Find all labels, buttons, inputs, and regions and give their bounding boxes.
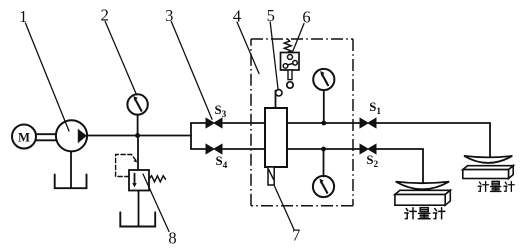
wire relief valve to tank (138, 191, 140, 227)
wire main line (87, 135, 191, 137)
valve S2 (360, 144, 376, 154)
leader 6 (292, 24, 304, 53)
pump output triangle (78, 129, 87, 143)
block top stem (275, 91, 277, 109)
label right 计量计 (478, 181, 514, 191)
meter dish right (464, 156, 512, 163)
pressure gauge lower (313, 176, 334, 197)
meter slab left (395, 190, 450, 194)
relief valve pilot dashed line (116, 155, 136, 177)
motor M circle (12, 125, 36, 149)
leader 3 (171, 22, 212, 120)
svg-text:S1: S1 (369, 100, 381, 117)
leader 7 (274, 185, 294, 230)
relief valve arrow (134, 174, 136, 185)
leader 8 (143, 174, 169, 232)
leader 2 (105, 22, 136, 95)
wire lower gauge stem (323, 149, 325, 177)
label left 计量计 (405, 208, 445, 219)
valve S3 (206, 118, 222, 128)
switch 6 spring (284, 39, 291, 53)
switch 6 contacts (288, 55, 293, 60)
enclosure 4 dash-dot box (251, 39, 353, 206)
pressure gauge upper (313, 69, 334, 90)
node junction lower gauge (321, 147, 326, 152)
block bottom stem 7 (268, 167, 274, 185)
switch 6 body (281, 53, 300, 71)
wire upper branch S3 to block (222, 122, 264, 124)
switch 6 plunger stem (288, 70, 292, 80)
wire lower branch block to S2 (287, 148, 360, 150)
svg-text:S3: S3 (215, 103, 227, 120)
wire S2 to left meter (376, 149, 423, 186)
block 5 body (265, 108, 287, 167)
svg-text:M: M (18, 130, 30, 144)
switch 6 roller (287, 82, 293, 88)
wire main line to relief valve (137, 136, 139, 171)
wire pump to tank (70, 151, 72, 188)
wire lower branch to S4 (191, 148, 206, 150)
tank T2 (120, 212, 155, 226)
block top hook (276, 90, 282, 96)
wire split vertical (190, 123, 192, 149)
meter slab right (463, 166, 513, 170)
relief valve 8 body (129, 170, 149, 191)
leader 1 (25, 23, 69, 131)
wire upper branch to S3 (191, 122, 206, 124)
relief valve spring (149, 176, 165, 182)
wire S1 to right meter (376, 123, 490, 159)
tank T1 (55, 175, 87, 189)
svg-text:S4: S4 (216, 154, 228, 171)
pressure gauge 2 (127, 94, 147, 114)
meter dish left (396, 182, 449, 190)
svg-text:S2: S2 (366, 153, 378, 170)
pump 1 circle (56, 120, 87, 151)
leader 5 (270, 22, 278, 89)
wire lower branch S4 to block (222, 148, 264, 150)
leader 4 (237, 22, 259, 74)
valve S1 (360, 118, 376, 128)
wire gauge stem (137, 115, 139, 136)
wire upper branch block to S1 (287, 122, 360, 124)
coupling shaft lines (36, 133, 56, 135)
node junction at gauge tee (135, 133, 140, 138)
wire upper gauge stem (323, 90, 325, 123)
valve S4 (206, 144, 222, 154)
node junction upper gauge (321, 121, 326, 126)
